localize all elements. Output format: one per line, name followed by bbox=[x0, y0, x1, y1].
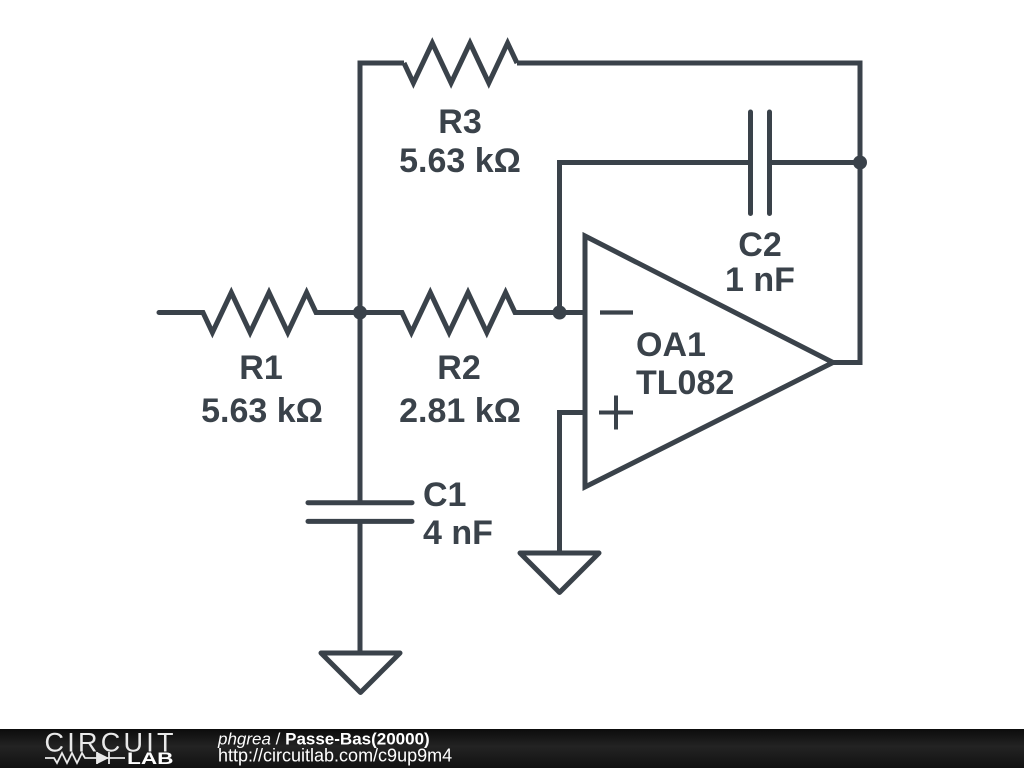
svg-text:R2: R2 bbox=[437, 349, 480, 387]
wire: non-inverting input to ground bbox=[560, 413, 586, 554]
wire: node A up and across to R3 bbox=[360, 63, 404, 313]
svg-text:LAB: LAB bbox=[127, 750, 174, 768]
capacitor C2 bbox=[751, 112, 770, 214]
wire: C1 down to ground bbox=[358, 521, 363, 653]
svg-text:TL082: TL082 bbox=[636, 364, 734, 402]
wire: node B to inverting input bbox=[560, 310, 586, 315]
svg-text:4 nF: 4 nF bbox=[423, 514, 493, 552]
ground (op-amp non-inverting input) bbox=[520, 553, 599, 593]
ground (below C1) bbox=[321, 653, 400, 693]
svg-text:R1: R1 bbox=[239, 349, 282, 387]
op-amp OA1 bbox=[585, 236, 833, 487]
svg-text:OA1: OA1 bbox=[636, 326, 706, 364]
svg-text:C1: C1 bbox=[423, 476, 466, 514]
op-amp minus pin symbol bbox=[600, 310, 633, 314]
svg-text:5.63 kΩ: 5.63 kΩ bbox=[201, 392, 323, 430]
wire: inverting input node up and across to C2 bbox=[560, 163, 751, 313]
wire: R3 to right vertical rail bbox=[517, 63, 860, 163]
wire: node A down to C1 bbox=[358, 313, 363, 503]
CircuitLab logo circuit squiggle (resistor + diode) bbox=[45, 752, 125, 764]
svg-text:1 nF: 1 nF bbox=[725, 261, 795, 299]
svg-text:C2: C2 bbox=[738, 226, 781, 264]
wire: C2 to output node bbox=[770, 160, 861, 165]
svg-text:2.81 kΩ: 2.81 kΩ bbox=[399, 392, 521, 430]
footer bar bbox=[0, 729, 1024, 768]
capacitor C1 bbox=[308, 503, 412, 522]
node A: R1/R2/R3/C1 junction bbox=[353, 306, 367, 320]
resistor R2 bbox=[360, 293, 560, 333]
node B: R2/C2/inverting-input junction bbox=[553, 306, 567, 320]
svg-text:R3: R3 bbox=[438, 103, 481, 141]
resistor R1 bbox=[159, 293, 360, 333]
node: feedback/output junction bbox=[853, 156, 867, 170]
svg-text:5.63 kΩ: 5.63 kΩ bbox=[399, 142, 521, 180]
wire: output node down to op-amp output bbox=[833, 163, 860, 363]
op-amp plus pin symbol bbox=[599, 396, 633, 430]
resistor R3 bbox=[404, 43, 517, 83]
svg-text:http://circuitlab.com/c9up9m4: http://circuitlab.com/c9up9m4 bbox=[218, 746, 452, 766]
